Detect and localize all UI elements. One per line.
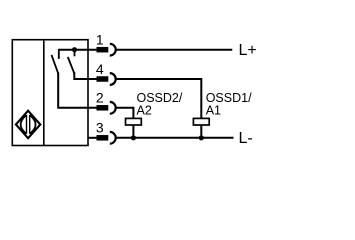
pin 3 connector plug	[97, 135, 109, 141]
pin 4 connector socket	[110, 73, 116, 85]
node: junction dot A1 on L-	[199, 135, 204, 140]
svg-text:L-: L-	[239, 130, 253, 147]
wire: pin2 to load A2	[116, 108, 134, 119]
wire: S1 to pin2 connector	[58, 73, 97, 108]
pin 2 connector socket	[110, 102, 116, 114]
node: junction dot on pin1 bus	[72, 47, 77, 52]
switch S1 arm	[52, 55, 59, 74]
switch S1 fixed contact stub	[58, 49, 60, 59]
node: junction dot A2 on L-	[131, 135, 136, 140]
load A2 (OSSD2)	[126, 118, 142, 125]
sensor body internal divider	[43, 40, 45, 146]
pin 3 connector socket	[110, 132, 116, 144]
wire: pin1 to L+	[116, 49, 233, 51]
wire: load A2 to L-	[132, 125, 134, 138]
svg-text:L+: L+	[239, 42, 257, 59]
pin 2 connector plug	[97, 105, 109, 111]
pin 4 connector plug	[97, 76, 109, 82]
svg-text:2: 2	[96, 90, 104, 106]
wire: load A1 to L-	[200, 125, 202, 138]
load A1 (OSSD1)	[193, 118, 209, 125]
switch S2 fixed contact stub	[74, 50, 76, 57]
wire: pin3 to L-	[116, 137, 234, 139]
switch S2 arm	[68, 57, 75, 73]
wire: pin4 to load A1	[116, 79, 202, 118]
wire: box to pin3 connector	[88, 137, 98, 139]
pin 1 connector socket	[110, 44, 116, 56]
svg-text:A1: A1	[206, 104, 221, 118]
svg-text:A2: A2	[137, 104, 152, 118]
wire: S2 to pin4 connector	[74, 72, 97, 79]
pin 1 connector plug	[97, 47, 109, 53]
wire: pin1 bus inside box to connector	[59, 49, 98, 51]
svg-text:1: 1	[96, 32, 104, 48]
photoelectric sensor symbol (diamond)	[16, 111, 40, 139]
svg-text:4: 4	[96, 61, 104, 77]
sensor body outline	[12, 40, 88, 146]
svg-text:3: 3	[96, 120, 104, 136]
